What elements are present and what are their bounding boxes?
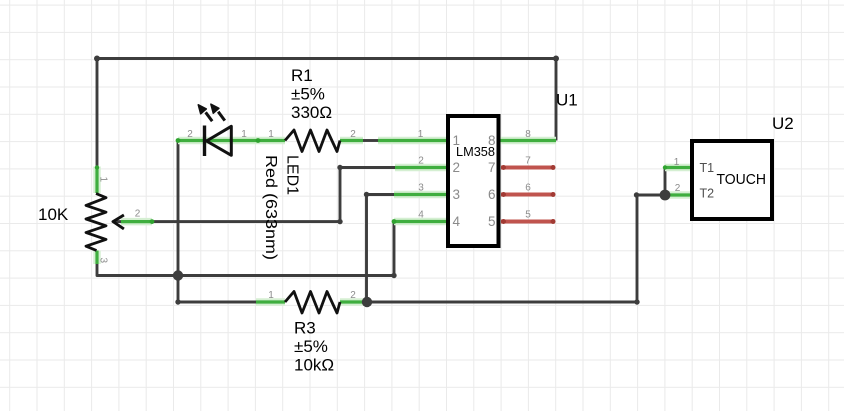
svg-text:1: 1	[268, 129, 274, 140]
pin label pot 1 rotated	[98, 177, 109, 183]
svg-text:6: 6	[488, 187, 496, 202]
svg-text:2: 2	[187, 129, 193, 140]
node top-left corner	[94, 56, 100, 62]
junction touch T1/T2	[660, 190, 671, 201]
svg-text:1: 1	[241, 129, 247, 140]
wire dark gap R1 to IC pin1	[363, 139, 378, 142]
svg-text:1: 1	[453, 133, 461, 148]
LED1 emission arrow 2	[211, 104, 225, 120]
small wire pin labels	[135, 129, 681, 301]
net R3 pin1 stub	[256, 300, 285, 303]
svg-text:10kΩ: 10kΩ	[294, 356, 334, 375]
node R3 wire left end	[175, 299, 180, 304]
svg-text:2: 2	[350, 129, 356, 140]
svg-text:T2: T2	[700, 187, 715, 201]
svg-text:1: 1	[418, 129, 424, 140]
svg-text:Red (633nm): Red (633nm)	[262, 155, 279, 260]
LED1 triangle	[207, 126, 232, 155]
resistor R1 zigzag	[285, 130, 340, 152]
node bottom right corner	[634, 299, 639, 304]
svg-text:TOUCH: TOUCH	[717, 171, 767, 188]
net IC pin3 stub	[394, 193, 447, 196]
wire top rail from pot top to U1 pin8 drop	[97, 59, 556, 167]
net pot pin1	[95, 167, 98, 194]
net IC pin8 stub	[500, 139, 556, 142]
op-amp U1 LM358 body	[448, 116, 499, 246]
net R1 pin2	[340, 139, 363, 142]
node wiper bend lower	[337, 219, 342, 224]
svg-text:U2: U2	[772, 114, 794, 133]
junction R3 pin2 / IC pin3 / touch net	[362, 297, 372, 307]
net LED pin2 to R1	[178, 139, 285, 142]
net R3 pin2 stub	[340, 300, 367, 303]
green net halos	[97, 141, 691, 303]
unconnected pin5 stub	[501, 219, 556, 224]
svg-text:T1: T1	[700, 161, 715, 175]
svg-text:8: 8	[525, 129, 531, 140]
wire touch T1 bend down to T2 junction	[664, 168, 667, 196]
unconnected pin7 stub	[501, 165, 556, 170]
wire pot wiper to IC pin2	[113, 168, 395, 222]
net IC pin2 stub	[395, 166, 447, 169]
svg-text:5: 5	[525, 210, 531, 221]
svg-text:±5%: ±5%	[291, 85, 325, 104]
net pot wiper pin2	[121, 220, 152, 223]
svg-text:5: 5	[488, 214, 496, 229]
svg-text:4: 4	[453, 214, 461, 229]
svg-text:8: 8	[488, 133, 496, 148]
svg-text:2: 2	[675, 183, 681, 194]
potentiometer 10K body	[86, 194, 106, 251]
svg-text:330Ω: 330Ω	[291, 103, 332, 122]
svg-text:7: 7	[525, 156, 531, 167]
resistor R3 zigzag	[285, 292, 340, 314]
svg-text:3: 3	[453, 187, 461, 202]
net pot pin3	[95, 251, 98, 265]
wire IC pin3 down to R3 junction	[367, 195, 395, 303]
node wiper bend upper	[337, 165, 342, 170]
svg-text:2: 2	[453, 160, 461, 175]
svg-text:3: 3	[98, 258, 109, 264]
svg-text:LED1: LED1	[284, 155, 301, 195]
pin numbers inside U1	[453, 133, 496, 229]
junction pot bottom / LED net	[173, 270, 183, 280]
potentiometer wiper arrow	[113, 215, 124, 229]
svg-text:3: 3	[418, 183, 424, 194]
touch sensor U2 body	[692, 141, 772, 219]
net IC pin4 stub	[394, 220, 447, 223]
net IC pin1 stub	[378, 139, 447, 142]
svg-text:U1: U1	[556, 91, 578, 110]
green net cores	[97, 141, 691, 303]
node pin4 wire end	[391, 273, 396, 278]
svg-text:4: 4	[418, 210, 424, 221]
net touch T1 stub	[665, 166, 691, 169]
node pin3 bend	[364, 192, 369, 197]
svg-text:R1: R1	[291, 66, 313, 85]
wire pot bottom to IC pin4 riser	[97, 222, 394, 276]
LED1 emission arrow 1	[198, 105, 212, 121]
svg-text:1: 1	[674, 157, 680, 168]
wire R3 row to touch riser	[178, 195, 665, 302]
svg-text:6: 6	[525, 183, 531, 194]
svg-text:10K: 10K	[38, 205, 69, 224]
svg-text:±5%: ±5%	[294, 337, 328, 356]
unconnected pin6 stub	[501, 192, 556, 197]
pin label pot 3 rotated	[98, 258, 109, 264]
svg-text:2: 2	[350, 290, 356, 301]
net touch T2 stub	[665, 193, 691, 196]
wire LED cathode down to R3	[177, 141, 180, 303]
node top-right corner	[553, 56, 559, 62]
svg-text:R3: R3	[294, 319, 316, 338]
LED1 cathode bar	[203, 126, 206, 157]
green endpoint dots	[95, 138, 667, 224]
svg-text:2: 2	[418, 156, 424, 167]
label LED1 rotated	[262, 155, 301, 260]
svg-text:2: 2	[135, 209, 141, 220]
svg-text:7: 7	[488, 160, 496, 175]
node touch wire end	[634, 192, 639, 197]
svg-text:1: 1	[268, 290, 274, 301]
svg-text:1: 1	[98, 177, 109, 183]
